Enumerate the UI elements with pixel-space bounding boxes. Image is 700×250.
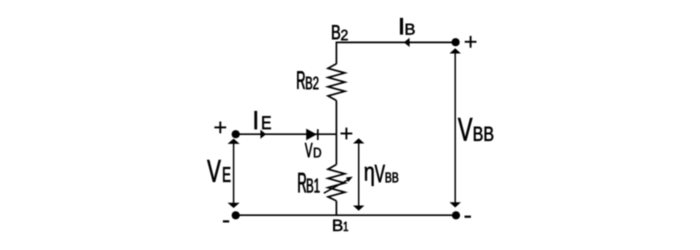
label VBB: V	[458, 118, 472, 141]
label RB2: R	[297, 71, 305, 89]
label B2 terminal: B	[332, 25, 340, 39]
node dot: bottom left	[232, 211, 240, 219]
label IE: I	[255, 111, 257, 129]
label VBB: sub BB	[474, 127, 493, 141]
node dot: top right	[452, 38, 460, 46]
label etaVBB: eta	[365, 167, 374, 186]
etaVBB voltage double arrow	[353, 138, 364, 211]
minus sign VE bottom	[223, 220, 229, 222]
plus sign emitter junction	[341, 128, 353, 140]
plus sign VE top	[214, 122, 226, 134]
wire: top rail B2 node to right node	[336, 41, 455, 43]
label B1 terminal: B	[333, 220, 342, 231]
label VD: V	[305, 143, 313, 157]
node dot: bottom right	[452, 211, 460, 219]
label B2 terminal: sub 2	[341, 30, 347, 40]
label B1 terminal: sub 1	[344, 222, 348, 231]
wire: center column lower segment	[335, 201, 337, 215]
wire: bottom rail	[236, 214, 456, 216]
label VE: sub E	[223, 167, 230, 182]
variable-resistor arrow through RB1	[324, 177, 353, 194]
label VD: sub D	[314, 148, 321, 158]
wire: center column upper segment	[335, 42, 337, 64]
resistor RB1 (variable)	[328, 165, 345, 201]
label RB1: sub B1	[307, 179, 320, 193]
label RB1: R	[298, 173, 306, 192]
IE current arrowhead	[260, 130, 266, 139]
label VE: V	[207, 160, 221, 182]
plus sign VBB top	[465, 36, 477, 48]
IB current arrowhead	[404, 38, 410, 47]
label IB: I	[400, 18, 403, 34]
label RB2: sub B2	[306, 77, 318, 90]
resistor RB2	[328, 64, 345, 101]
label etaVBB: V	[375, 165, 385, 182]
minus sign VBB bottom	[465, 216, 471, 218]
label IE: sub E	[262, 116, 270, 129]
wire: center column middle segment	[335, 101, 337, 165]
node dot: emitter left	[232, 130, 240, 138]
wire: emitter horizontal	[236, 133, 337, 135]
VBB voltage double arrow	[450, 48, 461, 207]
diode VD	[306, 129, 318, 141]
label IB: sub B	[406, 24, 415, 35]
label etaVBB: sub BB	[386, 173, 399, 183]
VE voltage double arrow	[228, 139, 240, 208]
